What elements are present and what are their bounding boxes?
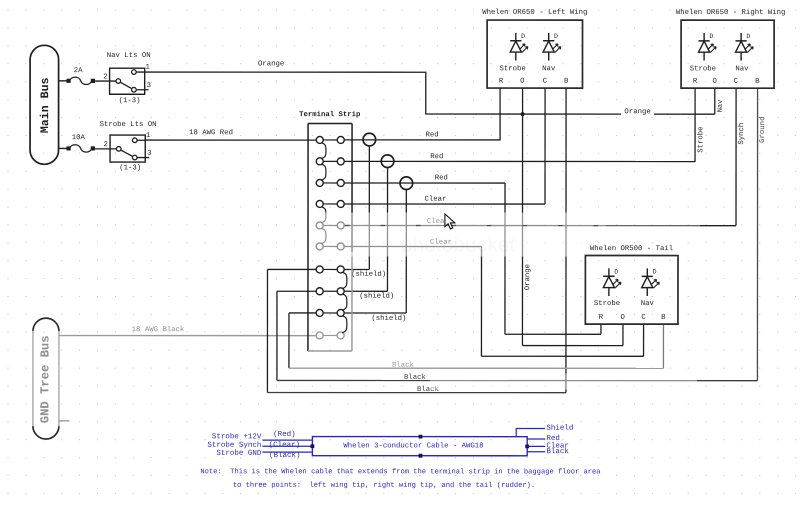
label Nav Lts ON [107,52,151,60]
svg-text:O: O [712,78,717,86]
svg-text:B: B [661,314,666,322]
shield ring cable 3 [400,177,413,190]
svg-text:Strobe: Strobe [697,127,705,153]
label Terminal Strip [299,111,361,119]
fuse F1 2A [66,77,95,84]
label Clear row6 [430,239,452,247]
label Whelen OR650 - Right Wing [676,9,785,17]
svg-text:B: B [755,78,760,86]
label tail Nav [641,300,655,308]
svg-text:GND Tree Bus: GND Tree Bus [38,335,52,423]
svg-text:Whelen OR500 - Tail: Whelen OR500 - Tail [590,245,673,253]
label (shield) 1 [351,271,386,279]
label Red row2 [430,153,443,161]
label Black out [546,448,569,456]
wire clear row5 up to right wing C pin [735,88,737,225]
LED left wing nav [543,33,561,61]
label right wing Nav [735,65,749,73]
label tail Strobe [594,300,620,308]
junction blue left [310,444,314,448]
svg-text:(shield): (shield) [351,271,386,279]
label Orange on wire [621,108,654,118]
label Whelen 3-conductor Cable - AWG18 [343,442,483,450]
wire red row3 east [344,182,505,184]
note line 2 [233,482,535,490]
switch S1 pin 3 contact [132,87,149,92]
wire red row3 run to tail [505,333,601,335]
wire blue red-out [527,438,545,440]
wire orange S1 pin1 east [145,71,426,73]
label Red row1 [425,131,438,139]
label Orange (vertical) [524,264,532,290]
svg-text:10A: 10A [72,134,86,142]
terminal pairs rows 1-10 [316,136,344,339]
wire shield 3 drop [341,189,407,313]
label 10A [72,134,86,142]
svg-text:2: 2 [103,141,107,149]
wire GND bus stub [59,420,70,422]
switch S1 arm [121,82,132,88]
label Nav (vertical) [717,100,725,113]
wire orange horizontal run [425,113,715,115]
svg-text:Orange: Orange [524,264,532,290]
terminal strip jumpers [321,143,347,333]
wire red row1 east [344,139,500,141]
wire left wing O pin down [521,88,523,345]
mouse cursor [445,214,455,229]
label S1 (1-3) [119,97,141,105]
svg-text:Whelen 3-conductor Cable - AWG: Whelen 3-conductor Cable - AWG18 [343,442,483,450]
LED tail nav [642,268,660,296]
wire Main Bus tap to fuse F1 [59,80,69,82]
label tail pins R O C B [599,314,666,322]
label right wing Strobe [690,65,716,73]
label Strobe (vertical) [697,127,705,153]
label Main Bus [39,77,52,133]
wire clear up to tail C pin [643,324,645,356]
svg-text:(shield): (shield) [359,293,394,301]
label GND Tree Bus [38,335,52,423]
note line 1 [200,468,601,476]
svg-text:Strobe GND: Strobe GND [216,450,262,458]
wire orange drop [425,72,427,114]
wire blue black-out [527,451,545,453]
label (shield) 3 [371,315,406,323]
wire black run row7 to left wing B [267,392,565,394]
svg-text:Red: Red [425,131,438,139]
wire 18 AWG Red S2 pin1 to terminal strip row1 [145,139,316,141]
switch S2 body [110,135,145,162]
svg-text:(1-3): (1-3) [119,164,141,172]
wire clear row6 down [480,247,482,357]
svg-text:Nav: Nav [542,65,556,73]
terminal strip body [308,123,352,351]
switch S2 pin 2 contact [116,147,121,152]
svg-text:(shield): (shield) [371,315,406,323]
label left wing pins R O C B [499,78,569,86]
svg-text:Strobe +12V: Strobe +12V [212,433,262,441]
wire black run row9 to tail B [289,367,663,369]
shield ring cable 2 [381,155,394,168]
label S1 pin 2 [103,73,107,81]
svg-text:Strobe: Strobe [499,65,525,73]
svg-text:Strobe Lts ON: Strobe Lts ON [100,121,157,129]
wire 18 AWG Black GND bus to strip row10 [59,335,316,337]
label Orange upper [258,60,284,68]
wire clear row5 east [344,224,736,226]
watermark band lower [430,374,697,390]
svg-text:(Clear): (Clear) [269,442,301,450]
switch S1 pin 1 contact [132,70,145,75]
LED left wing strobe [510,33,528,61]
wire right wing B pin down [756,88,758,380]
svg-text:(Black): (Black) [269,452,301,460]
svg-text:D: D [709,33,713,40]
svg-text:2A: 2A [74,67,83,75]
wire fuse F2 to switch S2 pin 2 [93,148,116,150]
svg-text:D: D [653,269,657,276]
svg-text:Whelen OR650 - Right Wing: Whelen OR650 - Right Wing [676,9,785,17]
wire blue black-in [262,451,312,453]
label right wing pins R O C B [693,78,760,86]
switch S1 pin 2 contact [116,79,121,84]
label Black middle [404,374,427,382]
fixture left wing body [487,20,582,88]
svg-text:1: 1 [146,132,151,140]
wire left wing B pin down [565,88,567,393]
wire blue clear-out [527,445,545,447]
svg-text:(Red): (Red) [273,431,296,439]
wire black row7 west + down [267,269,316,392]
wire tail B pin down [662,324,664,368]
wire black row8 west + down [277,291,316,380]
label Shield [546,425,573,433]
svg-text:Whelen OR650 - Left Wing: Whelen OR650 - Left Wing [482,9,587,17]
label S1 pin 3 [147,82,151,90]
svg-text:Orange: Orange [624,108,650,116]
LED right wing nav [736,33,754,61]
wire orange up to right wing O pin [714,88,716,114]
svg-text:R: R [599,314,604,322]
svg-text:D: D [554,33,558,40]
label left wing Nav [542,65,556,73]
wire fuse F1 to switch S1 pin 2 [93,80,116,82]
junction orange to left-wing O [521,112,525,116]
label Whelen OR650 - Left Wing [482,9,587,17]
svg-text:Strobe Synch: Strobe Synch [207,442,261,450]
wire clear row5 dark dashes [345,224,600,226]
junction blue top [419,435,423,439]
switch S1 body [110,68,145,94]
label Red out [546,435,560,443]
wire clear row4 up to left wing C pin [544,88,546,204]
switch S2 pin 1 contact [132,138,145,143]
bus GND Tree Bus [33,318,59,439]
label S1 pin 1 [145,64,150,72]
label (Black) [269,452,301,460]
cable box Whelen 3-conductor [312,437,527,456]
svg-text:Shield: Shield [546,425,573,433]
bus Main Bus [30,45,59,164]
wire black run row8 to right wing B [277,379,757,381]
svg-text:Black: Black [392,362,415,370]
label S2 pin 1 [146,132,151,140]
svg-text:Nav Lts ON: Nav Lts ON [107,52,151,60]
svg-text:C: C [641,314,646,322]
label Strobe Synch [207,442,261,450]
label (Clear) [269,442,301,450]
svg-text:C: C [543,78,548,86]
svg-text:18 AWG Red: 18 AWG Red [189,129,233,137]
fixture right wing body [681,20,774,88]
label Clear row4 [424,196,446,204]
label 18 AWG Black [132,326,185,334]
label Ground (vertical) [759,117,767,143]
svg-text:R: R [499,78,504,86]
svg-text:Clear: Clear [424,196,446,204]
wire shield 2 drop [341,167,388,291]
svg-text:O: O [520,78,525,86]
svg-text:Main Bus: Main Bus [39,77,52,133]
svg-text:1: 1 [145,64,150,72]
svg-text:O: O [621,314,626,322]
label Black lower [417,386,440,394]
switch S2 arm [121,150,132,156]
svg-text:Orange: Orange [258,60,284,68]
watermark band center [310,212,700,256]
svg-text:photobucket: photobucket [401,234,516,257]
label (Red) [273,431,296,439]
svg-text:Note: This is the Whelen cabl: Note: This is the Whelen cable that exte… [200,468,601,476]
junction blue bottom [419,454,423,458]
svg-text:Nav: Nav [717,100,725,113]
svg-text:2: 2 [103,73,107,81]
svg-text:Ground: Ground [759,117,767,143]
wire black row9 west + down [289,313,316,368]
wire red up to tail R pin [600,324,602,334]
label Strobe Lts ON [100,121,157,129]
svg-text:Strobe: Strobe [690,65,716,73]
label Synch (vertical) [738,123,746,145]
label Red row3 [435,174,448,182]
svg-text:3: 3 [147,150,151,158]
fuse F2 10A [66,145,95,152]
svg-text:D: D [746,33,750,40]
label S2 pin 2 [103,141,107,149]
svg-text:Synch: Synch [738,123,746,145]
svg-text:(1-3): (1-3) [119,97,141,105]
wire clear row4 east [344,203,545,205]
label (shield) 2 [359,293,394,301]
svg-text:R: R [693,78,698,86]
svg-text:Strobe: Strobe [594,300,620,308]
label Clear row5 [427,218,449,226]
label Whelen OR500 - Tail [590,245,673,253]
svg-text:to three points: left wing ti: to three points: left wing tip, right wi… [233,482,535,490]
svg-text:D: D [521,33,525,40]
svg-text:3: 3 [147,82,151,90]
svg-text:Red: Red [435,174,448,182]
LED tail strobe [603,268,621,296]
label Strobe +12V [212,433,262,441]
fixture tail body [585,255,678,324]
wire red row2 up to right wing R pin [694,88,696,162]
label S2 pin 3 [147,150,151,158]
wire clear row6 east [344,245,481,247]
junction blue right [525,444,529,448]
label Black upper [392,362,415,370]
wire shield 1 drop [341,146,370,270]
svg-text:B: B [564,78,569,86]
wire blue shield-out [516,428,545,436]
svg-text:D: D [614,269,618,276]
svg-text:Black: Black [546,448,569,456]
label S2 (1-3) [119,164,141,172]
svg-text:Black: Black [404,374,427,382]
label 18 AWG Red [189,129,233,137]
wire clear row6 run to tail [481,355,643,357]
svg-text:Nav: Nav [735,65,749,73]
label 2A [74,67,83,75]
svg-text:C: C [734,78,739,86]
wire red row2 east [344,160,695,162]
wire red row1 up to left wing R pin [499,88,501,140]
svg-text:18 AWG Black: 18 AWG Black [132,326,185,334]
svg-text:Terminal Strip: Terminal Strip [299,111,361,119]
wire Main Bus tap to fuse F2 [59,147,69,149]
shield ring cable 1 [363,133,376,146]
LED right wing strobe [699,33,717,61]
wire red row3 down [504,183,506,334]
wire blue clear-in [262,445,312,447]
svg-text:Nav: Nav [641,300,655,308]
label Clear out [546,442,569,450]
wire blue red-in [262,439,312,441]
label Strobe GND [216,450,262,458]
switch S2 pin 3 contact [132,155,149,160]
svg-text:Red: Red [430,153,443,161]
wire orange lower run to tail O [522,324,623,346]
label left wing Strobe [499,65,525,73]
